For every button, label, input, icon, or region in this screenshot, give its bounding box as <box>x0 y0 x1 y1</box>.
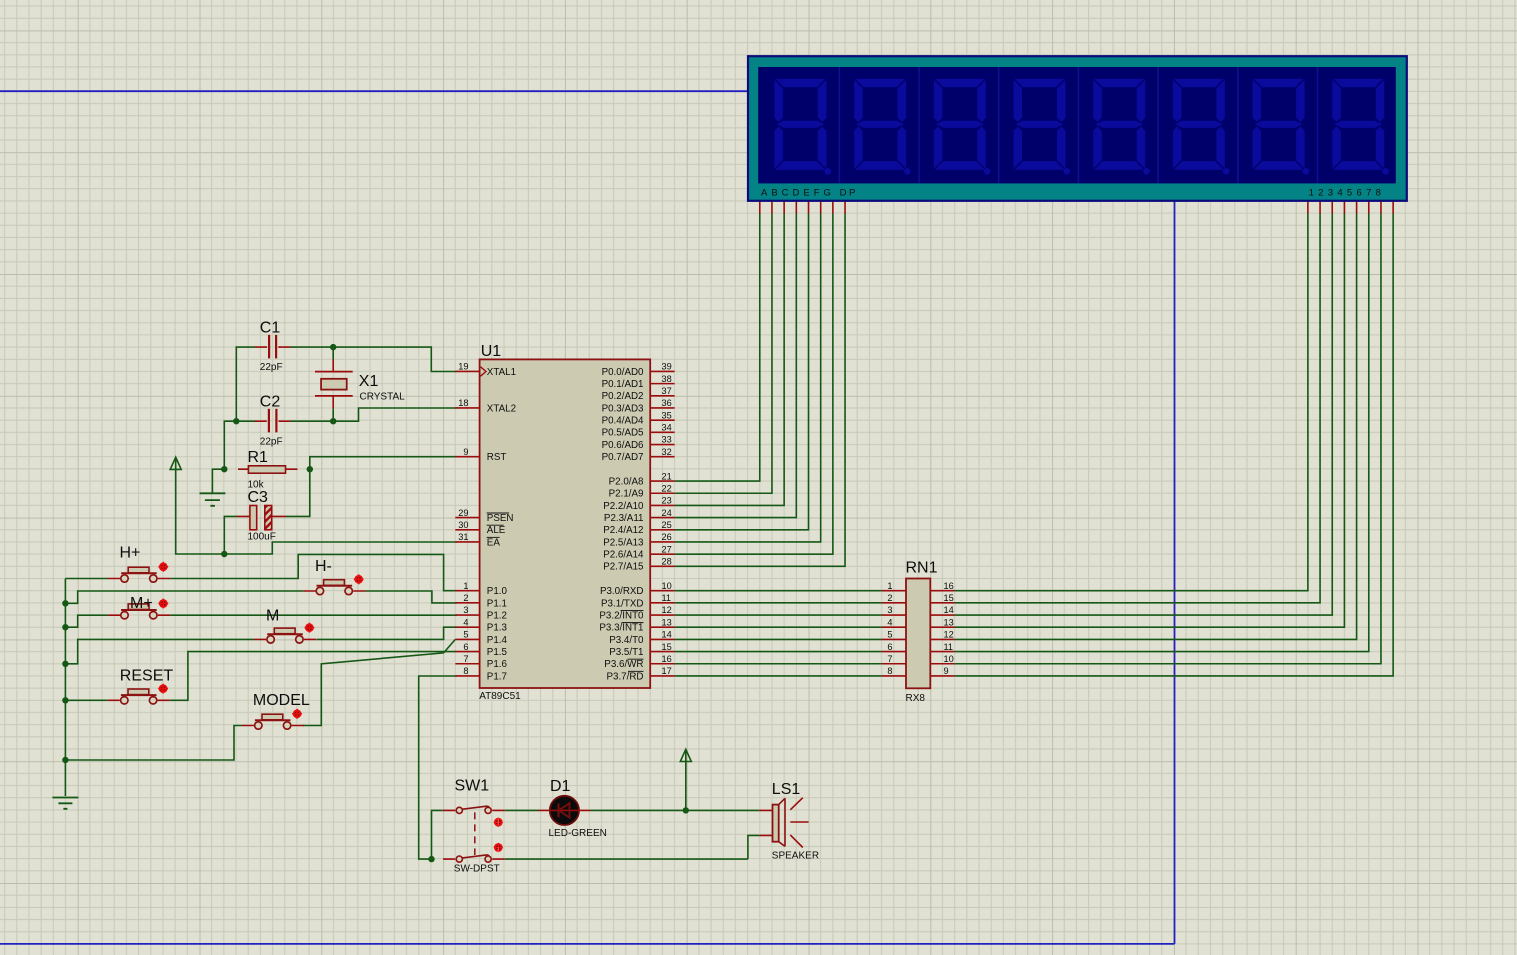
display pin 2 stub <box>1319 201 1321 214</box>
svg-text:P1.7: P1.7 <box>487 671 507 682</box>
RN1 pin 4 stub <box>882 626 906 628</box>
svg-text:H-: H- <box>315 558 332 575</box>
wire ground bus <box>64 579 66 797</box>
svg-text:ALE: ALE <box>487 525 506 536</box>
svg-text:39: 39 <box>662 362 672 372</box>
svg-text:31: 31 <box>458 532 468 542</box>
junction bus M+ <box>62 624 68 630</box>
wire MODEL to P1.4 <box>303 639 455 725</box>
display digit 1 <box>774 79 831 175</box>
svg-text:P1.2: P1.2 <box>487 610 507 621</box>
U1 pin 9 stub <box>455 456 479 458</box>
U1 pin 39 stub <box>650 370 674 372</box>
junction bus MODEL <box>62 757 68 763</box>
overline ALE <box>487 524 504 526</box>
overline EA <box>487 536 500 538</box>
wire display F to P2.5 <box>675 214 821 542</box>
svg-text:38: 38 <box>662 374 672 384</box>
wire H- left to bus <box>65 591 303 603</box>
ground <box>52 798 78 809</box>
svg-text:AT89C51: AT89C51 <box>479 691 521 702</box>
svg-text:13: 13 <box>944 617 954 627</box>
svg-text:P2.5/A13: P2.5/A13 <box>603 537 644 548</box>
svg-text:P2.7/A15: P2.7/A15 <box>603 562 644 573</box>
svg-text:14: 14 <box>662 630 672 640</box>
U1 pin 3 stub <box>455 614 479 616</box>
resistor R1 <box>238 466 298 473</box>
svg-text:RST: RST <box>487 452 507 463</box>
wire display 2 to RN1 pin 15 <box>955 214 1320 603</box>
7-segment display module frame <box>748 56 1407 201</box>
display digit separator <box>1157 67 1159 183</box>
RN1 pin 6 stub <box>882 651 906 653</box>
svg-text:P0.2/AD2: P0.2/AD2 <box>602 391 644 402</box>
svg-text:EA: EA <box>487 537 501 548</box>
svg-text:12: 12 <box>662 605 672 615</box>
U1 pin 36 stub <box>650 407 674 409</box>
svg-text:10: 10 <box>662 581 672 591</box>
svg-text:3: 3 <box>463 605 468 615</box>
svg-text:P0.1/AD1: P0.1/AD1 <box>602 379 644 390</box>
svg-text:15: 15 <box>944 593 954 603</box>
pushbutton M+ <box>108 604 170 619</box>
capacitor C1 <box>255 335 290 359</box>
display pin E stub <box>808 201 810 214</box>
svg-text:M+: M+ <box>130 595 153 612</box>
overline P3.7/RD <box>628 670 644 672</box>
U1 pin 19 stub <box>455 370 479 372</box>
display pin 5 stub <box>1356 201 1358 214</box>
wire P3.1 to RN1 pin 2 <box>675 602 882 604</box>
M+ actuator <box>158 599 168 609</box>
op-amp U1 body <box>480 359 651 688</box>
svg-text:36: 36 <box>662 398 672 408</box>
wire M to P1.3 <box>317 627 457 639</box>
wire P1.7 to SW1 <box>419 676 457 859</box>
svg-text:P0.0/AD0: P0.0/AD0 <box>602 367 644 378</box>
wire display E to P2.4 <box>675 214 809 530</box>
crystal top lead <box>332 360 334 372</box>
U1 pin 37 stub <box>650 395 674 397</box>
U1 pin 25 stub <box>650 529 674 531</box>
display pin G stub <box>832 201 834 214</box>
SW1 actuator arrows <box>494 818 503 827</box>
svg-text:100uF: 100uF <box>248 532 276 543</box>
U1 pin 32 stub <box>650 456 674 458</box>
wire C3 left <box>224 516 237 554</box>
svg-text:P3.4/T0: P3.4/T0 <box>609 635 644 646</box>
capacitor C2 <box>255 409 290 433</box>
U1 pin 15 stub <box>650 651 674 653</box>
display pin DP stub <box>844 201 846 214</box>
U1 pin 18 stub <box>455 407 479 409</box>
display digit separator <box>838 67 840 183</box>
display digit 8 <box>1332 79 1389 175</box>
overline P3.2/INT0 <box>621 609 644 611</box>
junction C3/EA rail <box>221 551 227 557</box>
svg-text:RN1: RN1 <box>906 560 938 577</box>
display pin A stub <box>759 201 761 214</box>
svg-text:P3.6/WR: P3.6/WR <box>604 659 643 670</box>
wire crystal bottom to C2 node <box>332 409 334 422</box>
wire M+ left to bus <box>65 615 108 627</box>
MODEL actuator <box>292 709 302 719</box>
wire M+ to P1.2 <box>170 614 456 616</box>
display pin D stub <box>795 201 797 214</box>
wire display D to P2.3 <box>675 214 797 518</box>
display digit separator <box>1237 67 1239 183</box>
wire R1 to RST <box>310 457 457 470</box>
display digit 7 <box>1253 79 1310 175</box>
svg-text:P0.5/AD5: P0.5/AD5 <box>602 428 644 439</box>
wire display 4 to RN1 pin 13 <box>955 214 1345 628</box>
svg-text:28: 28 <box>662 557 672 567</box>
wire SW1 common up <box>432 810 443 859</box>
svg-text:P2.4/A12: P2.4/A12 <box>603 525 643 536</box>
wire P3.2 to RN1 pin 3 <box>675 614 882 616</box>
svg-text:P1.4: P1.4 <box>487 635 508 646</box>
svg-text:5: 5 <box>463 630 468 640</box>
U1 pin 11 stub <box>650 602 674 604</box>
svg-text:22pF: 22pF <box>260 362 283 373</box>
display pin B stub <box>771 201 773 214</box>
svg-text:4: 4 <box>463 617 468 627</box>
RESET actuator <box>158 684 168 694</box>
svg-text:H+: H+ <box>120 545 141 562</box>
U1 pin 26 stub <box>650 541 674 543</box>
pushbutton H+ <box>108 567 170 582</box>
svg-text:P3.0/RXD: P3.0/RXD <box>600 586 644 597</box>
power (vcc) arrow right <box>680 749 691 763</box>
svg-text:14: 14 <box>944 605 954 615</box>
U1 pin 4 stub <box>455 626 479 628</box>
pushbutton H- <box>303 580 365 595</box>
H- actuator <box>354 574 364 584</box>
display digit 5 <box>1093 79 1150 175</box>
wire D1 to LS1 <box>591 809 760 811</box>
U1 pin 1 stub <box>455 590 479 592</box>
overline PSEN <box>487 512 510 514</box>
svg-text:P1.5: P1.5 <box>487 647 508 658</box>
wire C1 to XTAL1 <box>333 347 456 371</box>
RN1 pin 14 stub <box>930 614 954 616</box>
display digit separator <box>1077 67 1079 183</box>
power (vcc) arrow left <box>170 457 181 469</box>
U1 pin 2 stub <box>455 602 479 604</box>
RN1 pin 10 stub <box>930 663 954 665</box>
wire RESET to P1.5 <box>170 652 456 701</box>
wire C2 left <box>236 420 255 422</box>
RN1 pin 3 stub <box>882 614 906 616</box>
crystal X1 <box>315 372 353 396</box>
svg-text:MODEL: MODEL <box>253 692 310 709</box>
svg-text:6: 6 <box>463 642 468 652</box>
wire H+ left to bus <box>65 578 108 580</box>
display pin 7 stub <box>1380 201 1382 214</box>
svg-text:C1: C1 <box>260 320 281 337</box>
svg-text:C2: C2 <box>260 394 281 411</box>
junction SW1 common <box>428 856 434 862</box>
pushbutton RESET <box>108 689 170 704</box>
display digit 6 <box>1173 79 1230 175</box>
wire display 6 to RN1 pin 11 <box>955 214 1369 652</box>
svg-text:4: 4 <box>887 617 892 627</box>
junction bus M <box>62 661 68 667</box>
wire R1 node to ground <box>212 469 224 493</box>
svg-text:16: 16 <box>662 654 672 664</box>
wire to crystal top <box>332 347 334 359</box>
U1 pin 21 stub <box>650 480 674 482</box>
svg-text:P2.6/A14: P2.6/A14 <box>603 550 644 561</box>
svg-text:P1.0: P1.0 <box>487 586 508 597</box>
U1 pin 29 stub <box>455 517 479 519</box>
display digit separator <box>998 67 1000 183</box>
svg-text:21: 21 <box>662 471 672 481</box>
wire display 8 to RN1 pin 9 <box>955 214 1394 676</box>
svg-text:8: 8 <box>463 666 468 676</box>
U1 pin 31 stub <box>455 541 479 543</box>
U1 pin 6 stub <box>455 651 479 653</box>
svg-text:LED-GREEN: LED-GREEN <box>549 828 607 839</box>
svg-text:22: 22 <box>662 483 672 493</box>
svg-text:25: 25 <box>662 520 672 530</box>
svg-text:D1: D1 <box>550 778 571 795</box>
svg-text:X1: X1 <box>359 373 379 390</box>
svg-text:23: 23 <box>662 496 672 506</box>
svg-text:RX8: RX8 <box>906 693 926 704</box>
svg-text:DP: DP <box>840 187 858 198</box>
svg-text:P0.3/AD3: P0.3/AD3 <box>602 403 644 414</box>
svg-text:3: 3 <box>887 605 892 615</box>
sheet border bottom <box>0 943 1175 945</box>
display digit 4 <box>1014 79 1071 175</box>
wire display C to P2.2 <box>675 214 785 506</box>
svg-text:29: 29 <box>458 508 468 518</box>
ground <box>200 493 226 506</box>
junction C1/XTAL1 <box>330 344 336 350</box>
pushbutton MODEL <box>242 714 304 729</box>
svg-text:6: 6 <box>887 642 892 652</box>
svg-text:12: 12 <box>944 630 954 640</box>
RN1 pin 13 stub <box>930 626 954 628</box>
svg-text:15: 15 <box>662 642 672 652</box>
RN1 pin 8 stub <box>882 675 906 677</box>
XTAL1 clock chevron <box>481 367 487 376</box>
U1 pin 24 stub <box>650 517 674 519</box>
svg-text:P1.1: P1.1 <box>487 598 507 609</box>
wire P3.4 to RN1 pin 5 <box>675 638 882 640</box>
wire display B to P2.1 <box>675 214 772 494</box>
wire C2 node down to R1 node <box>224 421 236 469</box>
U1 pin 5 stub <box>455 638 479 640</box>
U1 pin 38 stub <box>650 383 674 385</box>
svg-text:XTAL1: XTAL1 <box>487 367 516 378</box>
svg-text:M: M <box>266 608 279 625</box>
svg-text:30: 30 <box>458 520 468 530</box>
svg-text:P1.6: P1.6 <box>487 659 508 670</box>
U1 pin 28 stub <box>650 565 674 567</box>
switch SW1 <box>443 806 505 862</box>
svg-text:SPEAKER: SPEAKER <box>772 850 819 861</box>
svg-text:P0.7/AD7: P0.7/AD7 <box>602 452 644 463</box>
wire display A to P2.0 <box>675 214 760 482</box>
display pin 1 stub <box>1307 201 1309 214</box>
svg-text:27: 27 <box>662 544 672 554</box>
speaker LS1 <box>759 798 808 848</box>
svg-text:P2.3/A11: P2.3/A11 <box>604 513 644 524</box>
U1 pin 33 stub <box>650 444 674 446</box>
overline P3.3/INT1 <box>622 622 644 624</box>
U1 pin 7 stub <box>455 663 479 665</box>
svg-text:26: 26 <box>662 532 672 542</box>
svg-text:22pF: 22pF <box>260 437 283 448</box>
junction power/speaker <box>683 807 689 813</box>
wire RESET left to bus <box>65 699 107 701</box>
wire M left to bus <box>65 639 254 663</box>
wire MODEL left to bus <box>65 726 241 761</box>
svg-text:1: 1 <box>463 581 468 591</box>
U1 pin 8 stub <box>455 675 479 677</box>
svg-text:16: 16 <box>944 581 954 591</box>
display pin 6 stub <box>1368 201 1370 214</box>
svg-text:32: 32 <box>662 447 672 457</box>
svg-text:P3.2/INT0: P3.2/INT0 <box>599 610 644 621</box>
wire SW1 to D1 <box>505 809 538 811</box>
svg-text:2: 2 <box>887 593 892 603</box>
crystal bottom lead <box>332 396 334 409</box>
junction bus H- <box>62 600 68 606</box>
U1 pin 35 stub <box>650 419 674 421</box>
svg-text:2: 2 <box>463 593 468 603</box>
svg-text:1: 1 <box>887 581 892 591</box>
svg-text:R1: R1 <box>248 449 269 466</box>
pushbutton M <box>254 628 316 643</box>
U1 pin 23 stub <box>650 504 674 506</box>
svg-text:8: 8 <box>887 666 892 676</box>
svg-text:7: 7 <box>463 654 468 664</box>
overline P3.6/WR <box>628 658 644 660</box>
junction bus RESET <box>62 697 68 703</box>
U1 pin 16 stub <box>650 663 674 665</box>
wire power rail to EA <box>176 469 457 554</box>
RN1 pin 2 stub <box>882 602 906 604</box>
svg-text:34: 34 <box>662 423 672 433</box>
svg-text:P3.7/RD: P3.7/RD <box>606 671 643 682</box>
svg-text:11: 11 <box>662 593 672 603</box>
display pin 3 stub <box>1331 201 1333 214</box>
svg-text:33: 33 <box>662 435 672 445</box>
wire display 1 to RN1 pin 16 <box>955 214 1308 591</box>
svg-text:P3.5/T1: P3.5/T1 <box>609 647 643 658</box>
RN1 pin 9 stub <box>930 675 954 677</box>
wire C2 to XTAL2 <box>333 408 456 421</box>
wire P3.6 to RN1 pin 7 <box>675 663 882 665</box>
svg-text:C3: C3 <box>248 489 269 506</box>
svg-text:24: 24 <box>662 508 672 518</box>
svg-text:RESET: RESET <box>120 667 174 684</box>
U1 pin 34 stub <box>650 431 674 433</box>
svg-text:P3.1/TXD: P3.1/TXD <box>601 598 643 609</box>
U1 pin 17 stub <box>650 675 674 677</box>
svg-text:7: 7 <box>887 654 892 664</box>
junction R1 right <box>307 466 313 472</box>
svg-text:P1.3: P1.3 <box>487 623 508 634</box>
wire display 7 to RN1 pin 10 <box>955 214 1381 664</box>
svg-text:35: 35 <box>662 410 672 420</box>
wire H+ to P1.0 <box>170 554 456 590</box>
wire display 5 to RN1 pin 12 <box>955 214 1357 640</box>
wire SW1 to LS1 return <box>505 858 748 860</box>
U1 pin 12 stub <box>650 614 674 616</box>
wire C2 right <box>290 420 333 422</box>
svg-text:P0.6/AD6: P0.6/AD6 <box>602 440 644 451</box>
U1 pin 13 stub <box>650 626 674 628</box>
svg-text:SW1: SW1 <box>455 778 490 795</box>
wire C1 right <box>290 346 333 348</box>
RN1 pin 11 stub <box>930 651 954 653</box>
wire P3.5 to RN1 pin 6 <box>675 651 882 653</box>
M actuator <box>305 623 315 633</box>
display digit separator <box>1317 67 1319 183</box>
svg-text:10: 10 <box>944 654 954 664</box>
wire display 3 to RN1 pin 14 <box>955 214 1333 616</box>
RN1 pin 15 stub <box>930 602 954 604</box>
U1 pin 14 stub <box>650 638 674 640</box>
resistor network RN1 <box>906 579 930 689</box>
wire H- to P1.1 <box>366 591 457 603</box>
junction C2/XTAL2 <box>330 418 336 424</box>
svg-text:12345678: 12345678 <box>1309 187 1386 198</box>
wire P3.0 to RN1 pin 1 <box>675 590 882 592</box>
RN1 pin 7 stub <box>882 663 906 665</box>
display digit separator <box>918 67 920 183</box>
svg-text:ABCDEFG: ABCDEFG <box>761 187 835 198</box>
svg-text:13: 13 <box>662 617 672 627</box>
wire display DP to P2.7 <box>675 214 845 567</box>
svg-text:SW-DPST: SW-DPST <box>454 864 500 875</box>
U1 pin 22 stub <box>650 492 674 494</box>
RN1 pin 5 stub <box>882 638 906 640</box>
wire display G to P2.6 <box>675 214 833 555</box>
wire power arrow stem <box>685 763 687 810</box>
U1 pin 10 stub <box>650 590 674 592</box>
wire P3.7 to RN1 pin 8 <box>675 675 882 677</box>
LED D1 <box>538 796 591 825</box>
display pin 8 stub <box>1392 201 1394 214</box>
svg-text:PSEN: PSEN <box>487 513 514 524</box>
svg-text:P2.0/A8: P2.0/A8 <box>609 476 644 487</box>
RN1 pin 1 stub <box>882 590 906 592</box>
display pin C stub <box>783 201 785 214</box>
svg-text:P0.4/AD4: P0.4/AD4 <box>602 416 644 427</box>
svg-text:17: 17 <box>662 666 672 676</box>
svg-text:37: 37 <box>662 386 672 396</box>
svg-text:11: 11 <box>944 642 954 652</box>
svg-text:P2.2/A10: P2.2/A10 <box>603 501 644 512</box>
svg-text:CRYSTAL: CRYSTAL <box>360 392 406 403</box>
junction R1 left <box>221 466 227 472</box>
svg-text:18: 18 <box>458 398 468 408</box>
display digit 3 <box>934 79 991 175</box>
svg-text:P3.3/INT1: P3.3/INT1 <box>599 623 643 634</box>
wire R1 to C3 <box>286 469 310 516</box>
wire P3.3 to RN1 pin 4 <box>675 626 882 628</box>
U1 pin 27 stub <box>650 553 674 555</box>
svg-text:9: 9 <box>463 447 468 457</box>
svg-text:9: 9 <box>944 666 949 676</box>
svg-text:5: 5 <box>887 630 892 640</box>
U1 pin 30 stub <box>455 529 479 531</box>
